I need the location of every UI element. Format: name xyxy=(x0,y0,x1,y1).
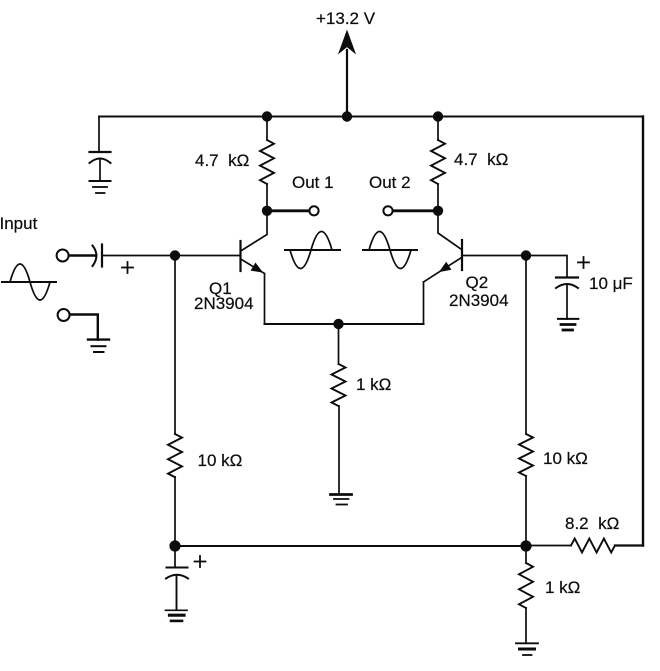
ground 1k emitter xyxy=(331,493,352,496)
resistor 10k right xyxy=(519,434,533,476)
resistor 1k emitter xyxy=(338,324,340,364)
wire cap to base node xyxy=(102,255,240,257)
wire to 10uF cap xyxy=(526,256,567,278)
terminal Out 1 xyxy=(309,206,318,215)
wire input to cap xyxy=(69,254,96,257)
wire emitter Q2 vertical xyxy=(423,282,425,324)
svg-text:Input: Input xyxy=(0,214,38,233)
wire Q2 base to right xyxy=(462,255,526,257)
ground 1k bottom right xyxy=(516,642,538,644)
capacitor input coupling xyxy=(93,246,97,267)
terminal input bottom xyxy=(58,309,70,321)
wire bottom rail xyxy=(175,545,526,547)
node common emitter xyxy=(333,319,343,329)
wire Out 2 stub xyxy=(393,209,438,212)
svg-text:Out 2: Out 2 xyxy=(369,173,411,192)
node bottom right xyxy=(520,540,531,551)
waveform out2 sine xyxy=(363,249,417,251)
wire input ground stub xyxy=(70,315,98,340)
plus bottom-left cap xyxy=(195,561,206,563)
wire right bias vertical upper xyxy=(525,256,527,435)
wire emitter Q1 vertical xyxy=(264,274,266,325)
resistor 10k left xyxy=(168,434,182,477)
wire right feedback vertical xyxy=(642,117,644,546)
resistor 1k bottom right xyxy=(525,546,527,563)
ground input xyxy=(88,338,109,340)
svg-text:10 kΩ: 10 kΩ xyxy=(543,449,588,468)
supply arrow xyxy=(346,50,348,116)
terminal input top xyxy=(57,250,69,262)
transistor Q2 xyxy=(461,240,463,270)
resistor 8.2k feedback xyxy=(526,545,571,547)
node top rail left junction xyxy=(262,111,272,121)
svg-text:2N3904: 2N3904 xyxy=(194,294,254,313)
node Q1 base xyxy=(170,250,180,260)
svg-text:1 kΩ: 1 kΩ xyxy=(356,375,391,394)
waveform out1 sine xyxy=(285,249,340,251)
node top rail center junction xyxy=(342,111,352,121)
ground bottom-left cap xyxy=(166,609,188,611)
wire common emitter rail xyxy=(265,323,424,325)
node top rail right junction xyxy=(433,111,443,121)
svg-text:Q2: Q2 xyxy=(466,273,489,292)
node bottom left xyxy=(169,540,180,551)
svg-text:10 kΩ: 10 kΩ xyxy=(198,451,243,470)
svg-text:2N3904: 2N3904 xyxy=(449,291,509,310)
svg-text:Out 1: Out 1 xyxy=(292,173,334,192)
ground bypass cap xyxy=(90,180,111,182)
plus 10uF xyxy=(578,261,589,263)
wire left bias vertical lower xyxy=(174,477,176,546)
ground 10uF xyxy=(558,318,578,320)
svg-text:10 μF: 10 μF xyxy=(589,274,633,293)
waveform input sine xyxy=(2,281,56,283)
transistor Q1 xyxy=(239,241,241,271)
terminal Out 2 xyxy=(383,206,392,215)
node collector Q1 xyxy=(262,206,272,216)
capacitor bypass top-left xyxy=(90,151,111,153)
wire top rail xyxy=(99,116,643,118)
svg-text:1 kΩ: 1 kΩ xyxy=(545,578,580,597)
capacitor 10uF xyxy=(556,276,578,278)
capacitor bottom-left xyxy=(174,546,176,568)
wire right bias vertical lower xyxy=(525,476,527,546)
wire bypass cap drop xyxy=(98,117,100,153)
svg-text:8.2 kΩ: 8.2 kΩ xyxy=(565,514,619,533)
resistor 4.7k left xyxy=(266,117,268,141)
plus input cap xyxy=(122,267,133,269)
svg-text:4.7 kΩ: 4.7 kΩ xyxy=(454,150,508,169)
node collector Q2 xyxy=(433,206,443,216)
node Q2 base right xyxy=(521,250,531,260)
wire left bias vertical upper xyxy=(174,256,176,435)
wire Out 1 stub xyxy=(267,209,309,212)
svg-text:4.7 kΩ: 4.7 kΩ xyxy=(195,151,249,170)
svg-text:+13.2 V: +13.2 V xyxy=(316,9,376,28)
resistor 4.7k right xyxy=(437,117,439,141)
